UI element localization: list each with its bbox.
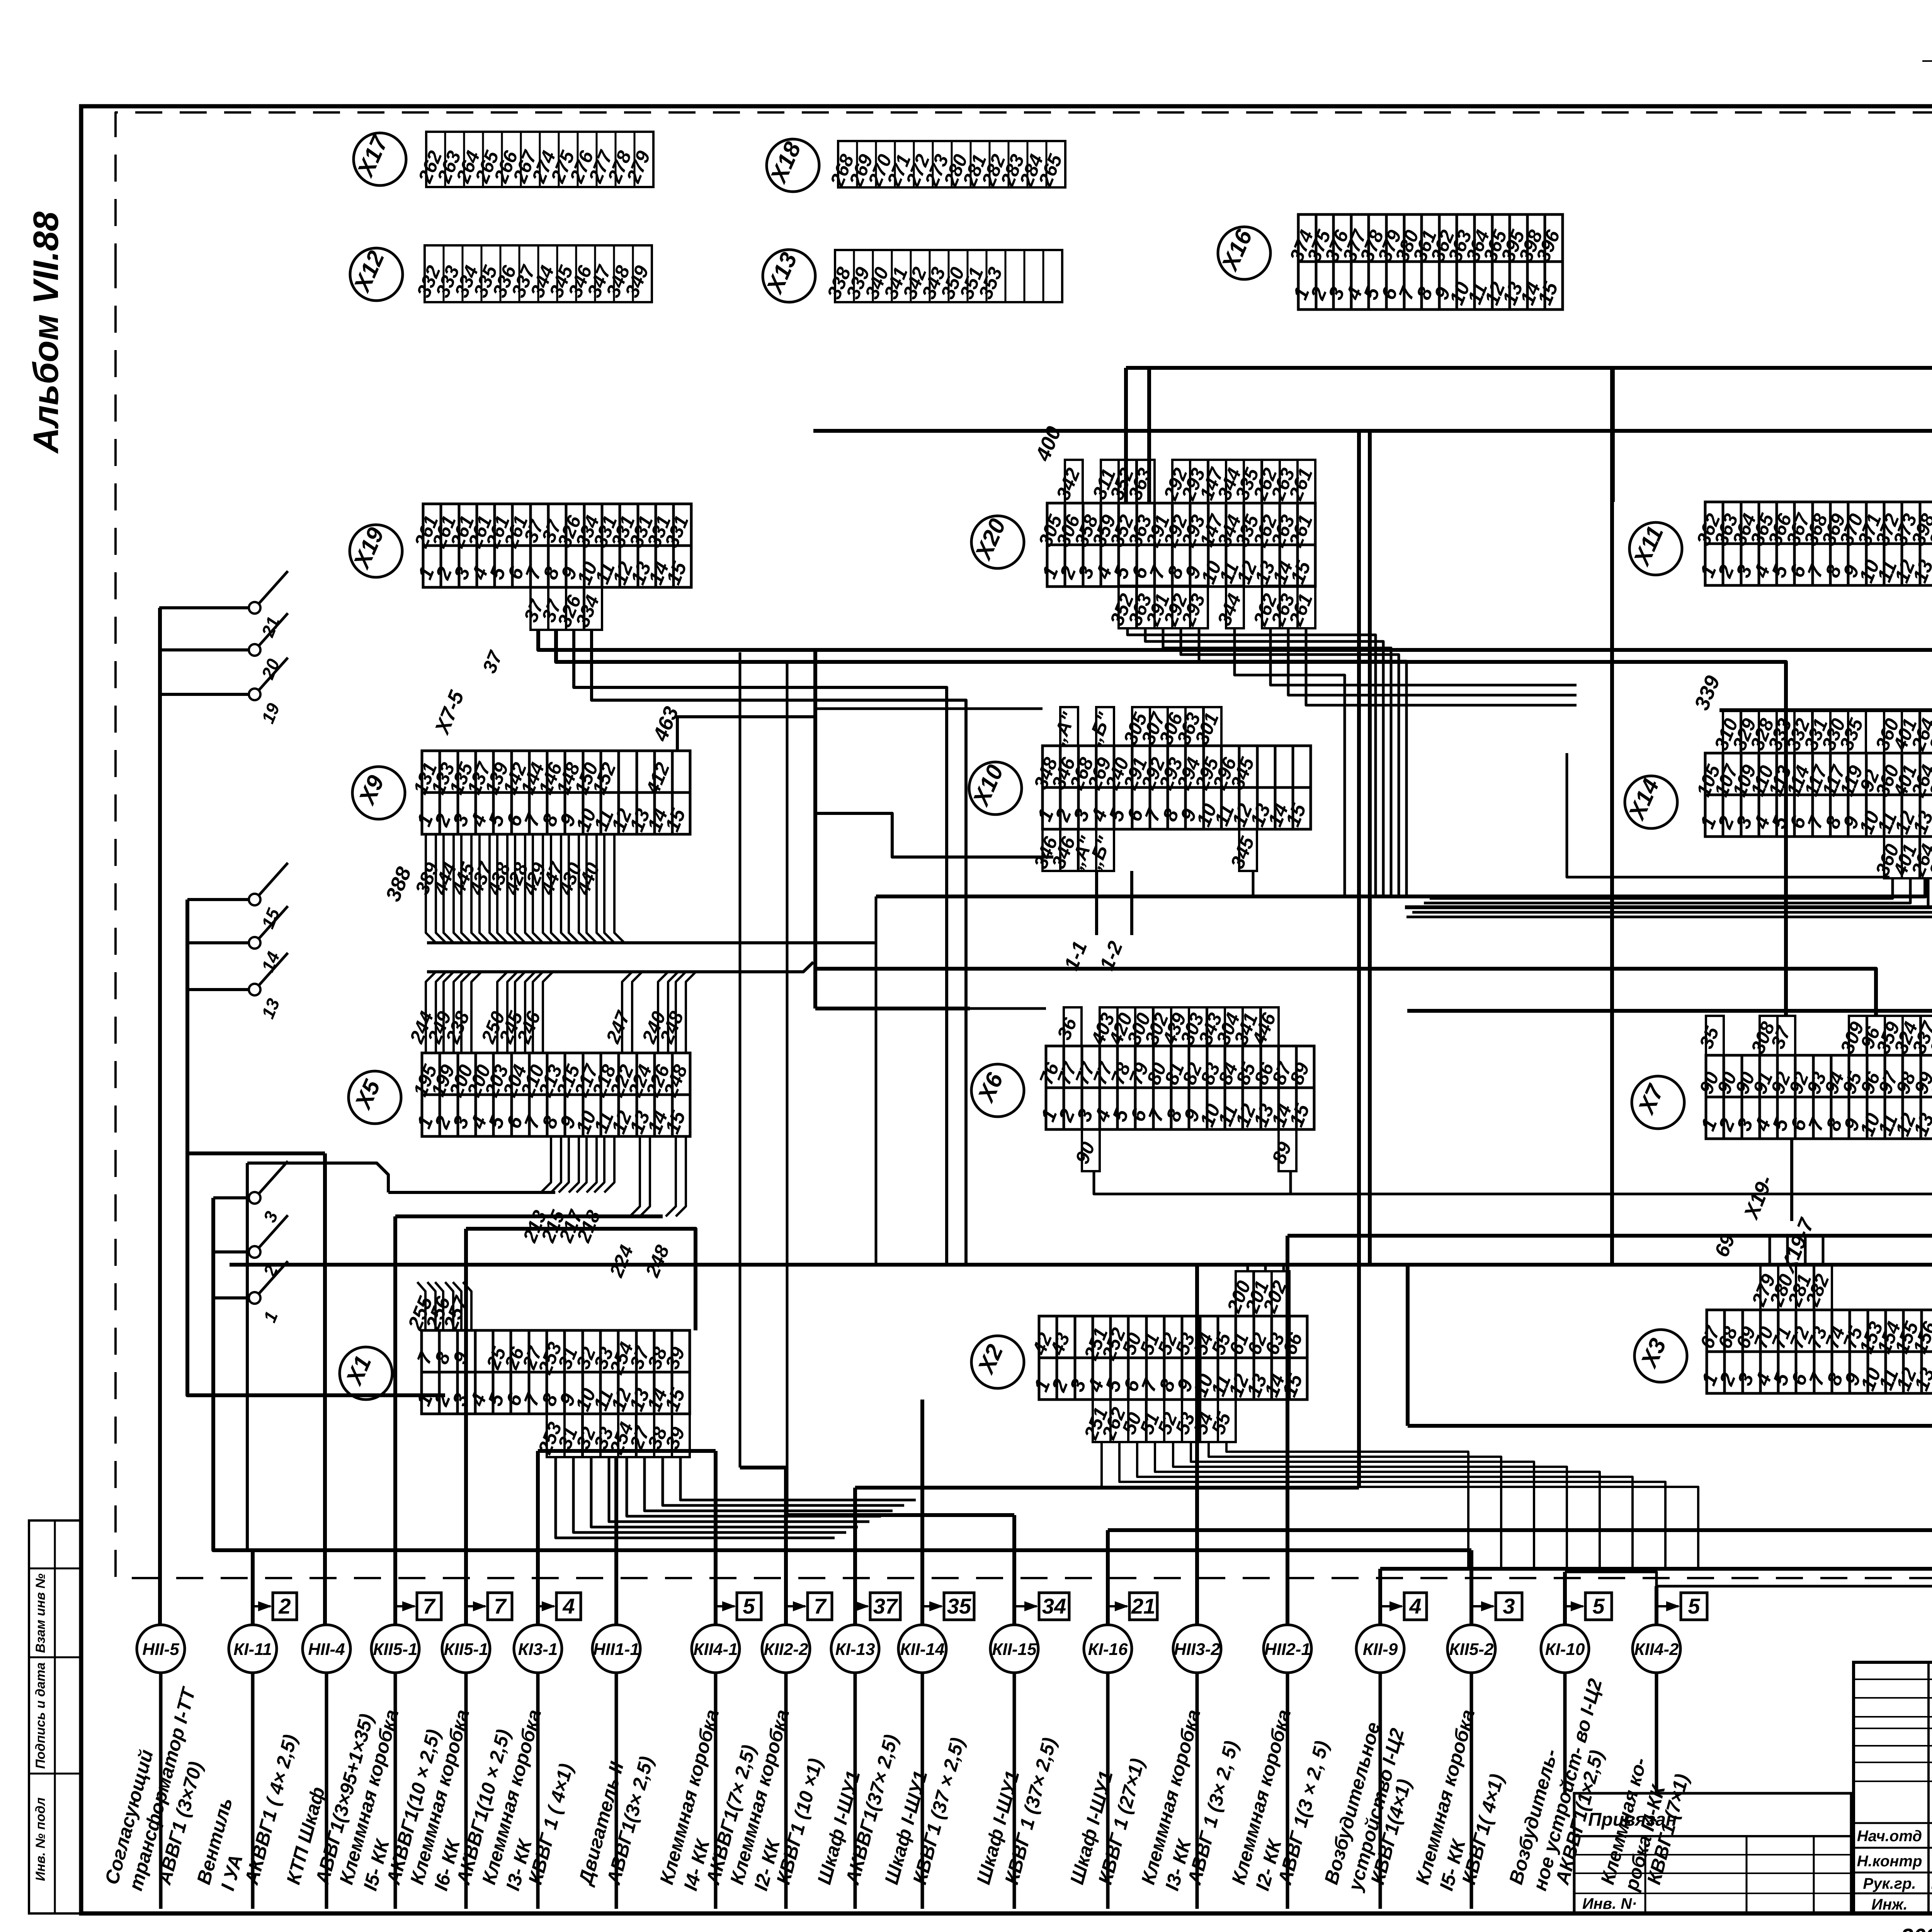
- wire X2 below wire: [1137, 1441, 1633, 1570]
- cable label КВВГ1 (37 × 2,5): [909, 1735, 969, 1887]
- wire bus contacts 1-3: [213, 1198, 253, 1625]
- connector label X12: [349, 247, 403, 301]
- cable line below КI-16: [1106, 1673, 1110, 1909]
- bound-reference table: [1574, 1793, 1851, 1913]
- wire X20 below wire: [1128, 628, 1376, 896]
- svg-text:КII2-2: КII2-2: [764, 1640, 808, 1659]
- terminal block X6: [1035, 1046, 1315, 1130]
- X20 above cells: [1052, 460, 1317, 503]
- cable circle КII2-2: [762, 1625, 810, 1673]
- wire cable riser КII-14: [920, 1400, 924, 1625]
- cable line below КII-15: [1013, 1673, 1016, 1909]
- wire X2 below wire: [1155, 1441, 1600, 1569]
- svg-text:3: 3: [1503, 1594, 1515, 1618]
- cable circle КI-13: [831, 1625, 879, 1673]
- svg-text:37: 37: [873, 1594, 898, 1618]
- terminal block X19: [410, 504, 693, 588]
- wire X6-X4 link: [1291, 1178, 1932, 1194]
- cable label АВВГ1 (3×70): [153, 1759, 207, 1888]
- cable circle КII4-2: [1633, 1625, 1680, 1673]
- cable label АКВВГ1(10 × 2,5): [382, 1727, 444, 1887]
- X1 above ribbon wires: [404, 1282, 473, 1333]
- cable label Вентиль: [193, 1795, 247, 1893]
- X2 below cells: [1080, 1400, 1236, 1443]
- cable label АКВВГ1(10 × 2,5): [452, 1727, 514, 1887]
- svg-text:5: 5: [743, 1594, 755, 1618]
- wire X10 below feeder: [813, 813, 1053, 857]
- contact 21: [159, 571, 288, 640]
- terminal block X1: [412, 1330, 690, 1414]
- cable label Клеммная коробка: [335, 1707, 403, 1893]
- cable label Клеммная ко-: [1597, 1755, 1670, 1894]
- cable circle КI-11: [229, 1625, 277, 1673]
- wire X2 below wire: [1209, 1441, 1501, 1568]
- X3 above cells: [1747, 1264, 1833, 1310]
- wire X11 feeder: [1612, 368, 1615, 502]
- wire X6 below 89: [1289, 1171, 1292, 1194]
- wire cable riser НII3-2: [1195, 1265, 1199, 1625]
- wire vert 4172: [1610, 368, 1614, 1265]
- svg-text:КII-9: КII-9: [1363, 1640, 1398, 1659]
- wire count box 5: [1656, 1593, 1707, 1620]
- wire trunk mid 3198: [1287, 1236, 1932, 1426]
- terminal strip X18: [826, 141, 1066, 190]
- cable label Клеммная коробка: [1228, 1707, 1295, 1893]
- wire cable riser НII1-1: [614, 1458, 618, 1625]
- wire cable riser КI-16: [1106, 1530, 1110, 1625]
- contact 1: [213, 1261, 288, 1325]
- cable label АВВГ1(3×95+1×35): [311, 1711, 378, 1888]
- wire cable riser КII5-1: [393, 1216, 397, 1625]
- wire X2 below wire: [1191, 1441, 1534, 1568]
- cable label КВВГ 1 ( 4×1): [524, 1761, 577, 1887]
- cable circle НII1-1: [592, 1625, 640, 1673]
- svg-text:КII4-2: КII4-2: [1634, 1640, 1679, 1659]
- cable circle НII2-1: [1264, 1625, 1311, 1673]
- wire X19-7: [1790, 1139, 1793, 1221]
- cable line below КII4-2: [1655, 1673, 1658, 1793]
- wire X10 below 345: [876, 871, 1253, 896]
- cable label Клеммная коробка: [1412, 1707, 1479, 1893]
- wire trunk 4012: [247, 1548, 1471, 1552]
- terminal block X20: [1034, 503, 1317, 587]
- X7 above cells: [1695, 1016, 1932, 1057]
- X6 above cells: [1053, 1007, 1280, 1048]
- wire trunk 2610b: [1407, 1011, 1932, 1053]
- X2 above cells: [1223, 1271, 1291, 1316]
- X10 above cells: [1047, 707, 1223, 748]
- svg-text:4: 4: [1409, 1594, 1421, 1618]
- wire trunk 3921: [787, 1513, 1014, 1517]
- svg-text:Н.контр: Н.контр: [1857, 1853, 1922, 1870]
- title block: [1854, 1662, 1932, 1914]
- wire X14 below wire: [1412, 878, 1932, 912]
- svg-text:7: 7: [814, 1594, 827, 1618]
- svg-text:Альбом VII.88: Альбом VII.88: [26, 211, 66, 454]
- svg-text:КII5-2: КII5-2: [1449, 1640, 1494, 1659]
- svg-text:КII5-1: КII5-1: [373, 1640, 417, 1659]
- wire wire 37 pair: [538, 626, 1932, 650]
- wire X20 below wire b: [1270, 628, 1577, 685]
- wire X10 below bus: [875, 896, 878, 1265]
- wire cable riser КII4-1: [714, 1451, 718, 1625]
- wire vert 4055: [1567, 753, 1889, 877]
- svg-text:Нач.отд: Нач.отд: [1857, 1828, 1922, 1845]
- svg-text:НII-5: НII-5: [142, 1640, 179, 1659]
- wire cable riser КII2-2: [784, 1468, 788, 1625]
- wire X14 below wire: [1418, 878, 1928, 908]
- svg-text:4: 4: [562, 1594, 575, 1618]
- svg-text:Инв. N·: Инв. N·: [1582, 1895, 1637, 1912]
- cable label КВВГ1( 4×1): [1458, 1772, 1508, 1887]
- cable line below КI3-1: [536, 1673, 540, 1909]
- cable label Шкаф I-ШУ1: [1066, 1769, 1117, 1887]
- wire count box 5: [716, 1593, 761, 1620]
- wire count box 35: [922, 1593, 974, 1620]
- X14 above cells: [1710, 710, 1932, 754]
- connector label X20: [970, 515, 1024, 568]
- svg-text:КII4-1: КII4-1: [693, 1640, 738, 1659]
- wire X2 above wires3: [1282, 1265, 1285, 1271]
- cable circle КI-16: [1084, 1625, 1132, 1673]
- contact 2: [213, 1215, 288, 1280]
- wire trunk 4068b: [1565, 1572, 1932, 1586]
- X5 above ribbon wires: [405, 962, 813, 1053]
- cable label Шкаф I-ШУ1: [973, 1769, 1024, 1887]
- svg-text:Инв. № подл: Инв. № подл: [33, 1798, 48, 1881]
- contact 19: [159, 658, 288, 726]
- wire count box 7: [786, 1593, 832, 1620]
- cable circle КII-15: [990, 1625, 1038, 1673]
- wire count box 7: [466, 1593, 512, 1620]
- connector label X13: [761, 248, 815, 302]
- cable label АВВГ 1(3 × 2, 5): [1274, 1738, 1333, 1888]
- contact 3: [213, 1161, 288, 1225]
- wire trunk 3755: [538, 1449, 716, 1453]
- cable label Клеммная коробка: [1137, 1707, 1205, 1893]
- connector label X6: [971, 1064, 1024, 1117]
- cable circle КII-14: [898, 1625, 946, 1673]
- cable label КВВГ1 (10 ×1): [772, 1756, 827, 1887]
- cable line below КII-14: [921, 1673, 924, 1909]
- connector label X17: [352, 131, 406, 185]
- connector label X9: [352, 767, 405, 819]
- wire bus contact 13-15: [187, 900, 445, 1395]
- cable circle КI-10: [1541, 1625, 1589, 1673]
- cable label Клеммная коробка: [726, 1707, 794, 1893]
- X3 riser wires: [1769, 1238, 1771, 1264]
- wire cable riser КII5-1b: [464, 1229, 468, 1625]
- wire count box 21: [1108, 1593, 1157, 1620]
- terminal block X11: [1692, 502, 1932, 586]
- svg-text:20983-11 29: 20983-11 29: [1900, 1924, 1932, 1932]
- wire X1 below wire: [609, 1457, 869, 1522]
- wire cable riser КI-13: [853, 1488, 857, 1625]
- wire X1 below wire: [663, 1457, 904, 1505]
- wire count box 4: [538, 1593, 581, 1620]
- svg-text:21: 21: [1131, 1594, 1155, 1618]
- cable label КТП Шкаф: [282, 1784, 329, 1886]
- wire vert 3643: [1406, 1265, 1410, 1426]
- wire cable riser КII-15: [1012, 1515, 1016, 1625]
- svg-text:КI3-1: КI3-1: [518, 1640, 558, 1659]
- cable circle НII-5: [137, 1625, 185, 1673]
- connector label X5: [349, 1071, 401, 1124]
- cable circle НII-4: [303, 1625, 350, 1673]
- cabinet dashed boundary: [116, 112, 1932, 270]
- wire trunk 2320: [876, 878, 1925, 896]
- svg-text:КI-13: КI-13: [835, 1640, 875, 1659]
- wire X1 below wire: [591, 1457, 858, 1527]
- terminal block X3: [1696, 1310, 1932, 1394]
- terminal block X5: [409, 1053, 692, 1137]
- wire count box 3: [1471, 1593, 1522, 1620]
- wire X6 below 90: [1094, 1171, 1291, 1194]
- svg-text:35: 35: [947, 1594, 971, 1618]
- wire cable riser НII2-1: [1286, 1236, 1289, 1625]
- cable label АВВГ1(3× 2,5): [602, 1754, 658, 1887]
- svg-text:5: 5: [1688, 1594, 1700, 1618]
- terminal block X10: [1030, 746, 1311, 830]
- wire cable riser КII-9: [1378, 1569, 1382, 1625]
- X14 below cells: [1871, 837, 1932, 879]
- wire X6 above feeder: [970, 1007, 1046, 1010]
- cable line below КI-13: [854, 1673, 857, 1909]
- wire count box 37: [855, 1593, 900, 1620]
- svg-text:НII2-1: НII2-1: [1264, 1640, 1311, 1659]
- wire X20 below wire: [1163, 628, 1391, 896]
- wire X20 riser A: [1124, 368, 1128, 503]
- wire trunk 3690: [1408, 1424, 1932, 1428]
- wire trunk 3960: [1108, 1528, 1932, 1532]
- terminal block X14: [1692, 753, 1932, 837]
- cable label КВВГ 1 (27×1): [1094, 1756, 1149, 1887]
- svg-text:КII5-1: КII5-1: [444, 1640, 488, 1659]
- cable label АКВВГ1(1×2,5): [1551, 1748, 1608, 1888]
- svg-text:2: 2: [278, 1594, 291, 1618]
- wire X1 below wire: [680, 1457, 916, 1500]
- wire trunk 3850: [855, 1486, 1359, 1490]
- wire bus 2985: [187, 1151, 325, 1155]
- cable label АКВВГ1(37× 2,5): [841, 1732, 902, 1888]
- connector label X1: [340, 1347, 392, 1400]
- wire X14 below wire: [1406, 878, 1932, 917]
- wire cable riser КI-10: [1563, 1572, 1567, 1625]
- wire trunk 2507: [815, 969, 1876, 1016]
- wire X20 below wire: [1181, 628, 1399, 896]
- wire cable riser КI3-1: [536, 1451, 540, 1625]
- cable label КВВГ1 (7×1): [1643, 1772, 1693, 1887]
- terminal strip X13: [823, 250, 1062, 302]
- svg-text:34: 34: [1042, 1594, 1066, 1618]
- wire cable riser КII5-2: [1469, 1550, 1473, 1625]
- terminal strip X12: [413, 245, 653, 302]
- wire 463: [677, 717, 813, 751]
- X10 below cells: [1030, 829, 1259, 872]
- connector label X3: [1634, 1330, 1687, 1382]
- terminal strip X17: [414, 132, 655, 187]
- cable line below КII5-1: [464, 1673, 468, 1909]
- cable label Клеммная коробка: [406, 1707, 474, 1893]
- cable label Двигатель II: [574, 1759, 628, 1888]
- wire X2 below wire: [1226, 1441, 1468, 1568]
- cable line below КII5-2: [1470, 1673, 1473, 1909]
- connector label X16: [1216, 226, 1270, 279]
- cable label КВВГ 1 (37× 2,5): [1001, 1735, 1061, 1887]
- cable label Согласующий: [101, 1684, 200, 1893]
- wire wire 334: [592, 630, 966, 1265]
- X6 below cells: [1071, 1129, 1296, 1171]
- wire vert 1915: [739, 652, 742, 1468]
- wire X20 vert 3545: [1368, 431, 1372, 1265]
- svg-text:НII-4: НII-4: [308, 1640, 345, 1659]
- wire vert 2110: [813, 650, 817, 1009]
- cable circle КI3-1: [514, 1625, 562, 1673]
- wire cable riser НII-4: [323, 1153, 327, 1625]
- wire trunk A: [1126, 368, 1932, 501]
- cable circle КII4-1: [692, 1625, 740, 1673]
- wire X1 below wire: [556, 1457, 835, 1538]
- cable line below КI-11: [251, 1673, 255, 1909]
- wire 1-2: [1130, 871, 1133, 935]
- cable line below НII-5: [159, 1673, 163, 1909]
- wire X20 below wire 344: [1235, 628, 1345, 896]
- wire X10 left feeder: [813, 707, 1043, 710]
- connector label X10: [968, 761, 1022, 815]
- wire 1-1: [1095, 871, 1098, 935]
- left margin stamp boxes: [29, 1520, 81, 1913]
- X9 below ribbon wires: [411, 835, 876, 943]
- cable line below КII-9: [1379, 1673, 1382, 1909]
- wire X2 below wire: [1102, 1441, 1698, 1570]
- wire count box 2: [253, 1593, 297, 1620]
- wire X20 below wire: [1145, 628, 1383, 896]
- wire trunk 2610: [815, 1007, 970, 1010]
- wire trunk B2: [1370, 431, 1932, 501]
- svg-text:КII-15: КII-15: [992, 1640, 1037, 1659]
- cable circle НII3-2: [1173, 1625, 1221, 1673]
- svg-text:НII3-2: НII3-2: [1174, 1640, 1220, 1659]
- wire X2 below wire: [1119, 1441, 1665, 1570]
- cable line below КII4-1: [714, 1673, 718, 1909]
- cable label Клеммная коробка: [478, 1707, 546, 1893]
- wire X1 below wire: [627, 1457, 881, 1516]
- wire cable riser КII4-2: [1655, 1586, 1658, 1625]
- cable circle КII5-2: [1447, 1625, 1495, 1673]
- wire vert 2037: [786, 662, 789, 1515]
- top edge thin line: [1922, 59, 1932, 61]
- wire X20 below wire b: [1306, 628, 1577, 705]
- connector label X11: [1628, 522, 1682, 575]
- wire count box 7: [395, 1593, 441, 1620]
- cable label КВВГ1(4×1): [1367, 1777, 1415, 1887]
- svg-text:Инж.: Инж.: [1871, 1896, 1908, 1913]
- terminal block X9: [409, 751, 690, 835]
- svg-text:КI-10: КI-10: [1545, 1640, 1585, 1659]
- X20 below cells: [1106, 586, 1317, 629]
- wire X2 above wires2: [1264, 1265, 1267, 1271]
- wire X20 below wire: [1199, 628, 1406, 896]
- contact 15: [187, 863, 288, 931]
- svg-text:КII-14: КII-14: [900, 1640, 944, 1659]
- wire feeder КII5-1b: [466, 1229, 696, 1330]
- cable line below НII3-2: [1196, 1673, 1199, 1909]
- connector label X14: [1623, 775, 1677, 828]
- cable label АВВГ 1 (3× 2, 5): [1183, 1738, 1243, 1888]
- X19 below cells: [520, 587, 604, 630]
- cable label АКВВГ1(7× 2,5): [702, 1743, 760, 1888]
- wire X20 below wire b: [1288, 628, 1577, 695]
- wire trunk 3798: [740, 1466, 786, 1469]
- wire X2 above wires: [1247, 1265, 1249, 1271]
- wire feeder КII5-1 bus2: [395, 1214, 663, 1218]
- cable label Возбудитель-: [1505, 1676, 1606, 1893]
- wire trunk mid 3273: [230, 1263, 1932, 1267]
- wire X20 riser B: [1147, 368, 1151, 503]
- wire X14 below wire: [1430, 878, 1893, 898]
- wire count box 4: [1380, 1593, 1427, 1620]
- cable label Клеммная коробка: [656, 1707, 723, 1893]
- wire vert 3517: [1357, 431, 1361, 1488]
- wire wire 37 pair b: [556, 630, 1786, 1016]
- cable line below НII1-1: [615, 1673, 618, 1909]
- cable circle КII5-1: [371, 1625, 419, 1673]
- terminal block X16: [1286, 214, 1565, 310]
- X5 below ribbon wires: [247, 1136, 686, 1550]
- svg-text:7: 7: [494, 1594, 507, 1618]
- connector label X7: [1632, 1076, 1684, 1129]
- cable line below НII-4: [325, 1673, 328, 1909]
- cable circle КII5-1: [442, 1625, 490, 1673]
- svg-text:КI-11: КI-11: [233, 1640, 272, 1659]
- wire bus contacts 21-19 riser НII-5: [158, 608, 162, 1625]
- svg-text:КI-16: КI-16: [1088, 1640, 1128, 1659]
- cable line below КI-10: [1563, 1673, 1567, 1793]
- cable label Шкаф I-ШУ1: [881, 1769, 932, 1887]
- connector label X19: [348, 524, 402, 577]
- wire count box 5: [1565, 1593, 1612, 1620]
- X1 below cells: [534, 1414, 690, 1458]
- terminal block X2: [1028, 1316, 1308, 1400]
- wire trunk B: [813, 429, 1370, 433]
- wire count box 34: [1014, 1593, 1069, 1620]
- connector label X2: [971, 1336, 1024, 1388]
- cable line below КII5-1: [394, 1673, 397, 1909]
- connector label X18: [765, 138, 819, 192]
- svg-text:НII1-1: НII1-1: [593, 1640, 639, 1659]
- svg-text:7: 7: [423, 1594, 436, 1618]
- terminal block X7: [1695, 1055, 1932, 1139]
- wire X2 below wire: [1173, 1441, 1567, 1569]
- wire trunk 2348: [1405, 878, 1932, 907]
- contact 14: [187, 906, 288, 975]
- contact 20: [159, 613, 288, 682]
- cable line below НII2-1: [1286, 1673, 1289, 1909]
- wire X1 below wire: [645, 1457, 893, 1511]
- svg-text:5: 5: [1592, 1594, 1605, 1618]
- wire trunk 4060: [1380, 1567, 1932, 1571]
- cable line below КII2-2: [784, 1673, 788, 1909]
- wire X14 above bus: [1719, 710, 1932, 1569]
- cable label Шкаф I-ШУ1: [813, 1769, 864, 1887]
- svg-text:Рук.гр.: Рук.гр.: [1863, 1875, 1916, 1892]
- cable circle КII-9: [1356, 1625, 1404, 1673]
- wire wire 326: [574, 630, 947, 1265]
- svg-text:Взам инв №: Взам инв №: [33, 1573, 48, 1653]
- cable label Возбудительное: [1320, 1720, 1408, 1894]
- wire X14 below wire: [1424, 878, 1910, 903]
- wire X1 below wire: [573, 1457, 846, 1532]
